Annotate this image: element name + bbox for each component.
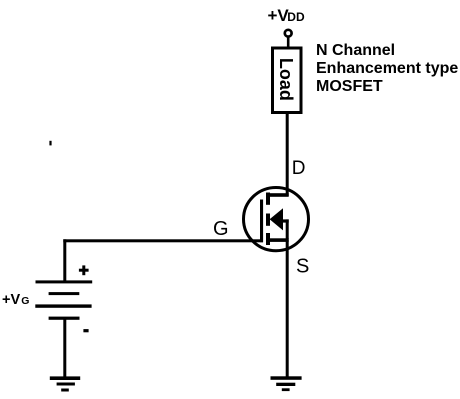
ground (source) (271, 376, 302, 391)
annotation N Channel Enhancement type MOSFET (316, 42, 458, 95)
svg-text:Enhancement type: Enhancement type (316, 60, 458, 77)
wire VDD terminal to load (287, 36, 290, 48)
label - (battery negative) (83, 329, 88, 332)
source lead (266, 238, 289, 242)
channel segment middle (266, 214, 270, 226)
stray mark (49, 141, 51, 146)
label + (battery positive) (79, 265, 89, 275)
svg-text:G: G (21, 295, 29, 307)
transistor Q1 MOSFET body circle (244, 188, 309, 251)
channel segment top (266, 193, 270, 205)
svg-text:N Channel: N Channel (316, 42, 395, 59)
ground (battery) (50, 376, 80, 391)
drain lead (266, 193, 289, 197)
node +VG label (2, 292, 29, 308)
svg-text:MOSFET: MOSFET (316, 78, 383, 95)
battery VG plate 2 short (49, 292, 80, 295)
body arrow (270, 208, 283, 230)
svg-text:G: G (213, 218, 229, 240)
gate bar (260, 200, 263, 243)
node +VDD label (268, 6, 305, 25)
wire load to drain (286, 112, 289, 196)
wire source down to ground (286, 240, 289, 378)
svg-text:Load: Load (276, 58, 296, 101)
battery VG plate 1 long positive (36, 280, 93, 283)
channel segment bottom (266, 233, 270, 245)
svg-text:+V: +V (2, 292, 20, 308)
resistor Load (273, 48, 302, 113)
body lead (281, 219, 289, 222)
wire gate horizontal (63, 239, 263, 242)
terminal +VDD (285, 30, 292, 37)
wire battery to gate wire (63, 239, 66, 281)
battery VG plate 4 short negative (49, 317, 80, 320)
svg-text:+V: +V (268, 6, 290, 25)
wire battery to ground (63, 320, 66, 379)
svg-text:S: S (296, 256, 309, 278)
svg-text:D: D (292, 158, 306, 179)
svg-text:DD: DD (287, 10, 305, 24)
wire body to source (286, 219, 289, 239)
battery VG plate 3 long (35, 304, 91, 307)
